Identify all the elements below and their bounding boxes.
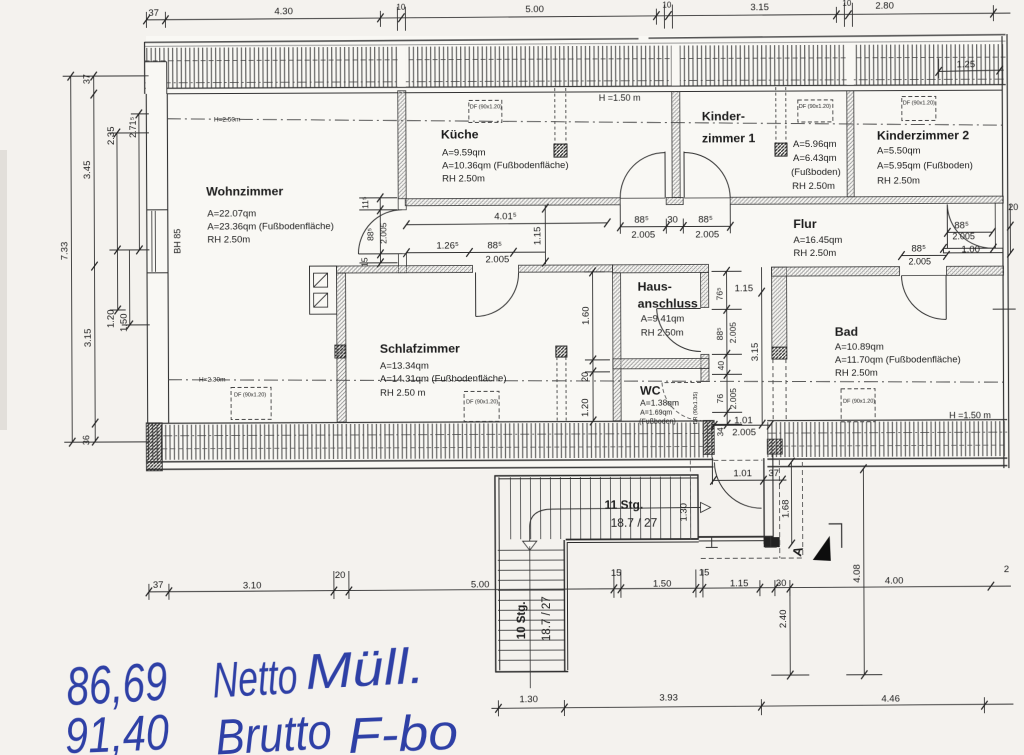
svg-text:DF (90x1.20): DF (90x1.20)	[903, 100, 935, 106]
svg-text:(Fußboden): (Fußboden)	[791, 167, 841, 178]
room label WC	[639, 384, 679, 426]
roof window DF Kinderzimmer 2	[902, 96, 936, 120]
room label Wohnzimmer	[206, 184, 334, 246]
door Schlafzimmer	[476, 272, 519, 316]
svg-text:1.01: 1.01	[734, 415, 753, 426]
svg-text:1.15: 1.15	[730, 578, 749, 589]
Wohnzimmer door dimension column	[359, 198, 397, 263]
svg-text:4.00: 4.00	[885, 576, 904, 587]
top band left notch	[146, 62, 167, 93]
top dimension chain	[146, 2, 1010, 32]
Schlafzimmer top wall left segment	[337, 265, 473, 273]
svg-text:A=5.96qm: A=5.96qm	[793, 139, 837, 150]
handwritten note line 1	[65, 637, 426, 717]
handwritten note line 2	[64, 703, 459, 755]
wall Wohnzimmer/Kueche	[398, 91, 406, 199]
room label Schlafzimmer	[380, 341, 507, 399]
dimension 3.15 vertical Flur corridor	[761, 267, 764, 424]
svg-text:A=9.41qm: A=9.41qm	[641, 314, 685, 325]
svg-text:11 Stg.: 11 Stg.	[605, 498, 644, 512]
dimension 1.68 vertical landing	[790, 462, 792, 544]
stair gap right pier	[767, 439, 782, 454]
exterior left wall	[146, 94, 169, 423]
landing dashed outline	[700, 460, 802, 558]
svg-text:Flur: Flur	[793, 217, 817, 231]
stair upper flight treads	[510, 476, 690, 539]
svg-text:A=9.59qm: A=9.59qm	[442, 147, 486, 158]
svg-text:1.20: 1.20	[106, 309, 117, 328]
svg-text:10 Stg.: 10 Stg.	[516, 601, 528, 639]
svg-text:88⁵: 88⁵	[698, 214, 713, 225]
door Kueche	[620, 152, 665, 199]
Hausanschluss right wall upper	[701, 272, 709, 307]
vertical dim 2.40 below	[771, 589, 809, 675]
svg-text:A=5.50qm: A=5.50qm	[877, 145, 921, 156]
svg-text:2.005: 2.005	[378, 222, 388, 244]
svg-text:H=2.50m: H=2.50m	[214, 116, 241, 123]
Hausanschluss/WC divider wall	[613, 358, 709, 368]
svg-text:RH 2.50m: RH 2.50m	[792, 181, 835, 192]
svg-text:18.7 / 27: 18.7 / 27	[611, 516, 658, 530]
svg-text:2.71⁵: 2.71⁵	[128, 116, 138, 138]
svg-text:88⁵: 88⁵	[365, 228, 375, 241]
electro panel Wohnzimmer	[310, 266, 337, 314]
roof window DF Kinderzimmer 1	[798, 100, 833, 122]
bottom roof band left part	[146, 420, 1007, 470]
wall 20cm piece right end of Flur	[995, 203, 1003, 248]
svg-text:Wohnzimmer: Wohnzimmer	[206, 184, 283, 198]
floor joint symbol right	[765, 536, 777, 547]
bottom dimension chain	[149, 568, 1011, 600]
svg-text:3.15: 3.15	[83, 329, 94, 348]
floor joint symbol left	[706, 536, 718, 547]
door Hausanschluss	[657, 308, 701, 351]
svg-text:20: 20	[335, 570, 346, 581]
svg-text:Brutto: Brutto	[214, 703, 333, 755]
svg-text:4.01⁵: 4.01⁵	[494, 211, 517, 222]
Flur top wall segment 2	[666, 198, 683, 205]
svg-text:RH 2.50m: RH 2.50m	[641, 328, 684, 339]
svg-text:15: 15	[699, 567, 710, 578]
svg-text:Haus-: Haus-	[638, 280, 672, 294]
svg-text:40: 40	[716, 361, 726, 371]
dimension stair door 1.01/37	[713, 479, 786, 481]
svg-text:10: 10	[662, 1, 671, 10]
svg-text:20: 20	[1008, 202, 1018, 212]
svg-text:Kinderzimmer 2: Kinderzimmer 2	[877, 128, 969, 142]
svg-text:DR (90x1.35): DR (90x1.35)	[693, 392, 699, 425]
svg-text:4.08: 4.08	[852, 564, 863, 583]
door Wohnzimmer	[358, 210, 402, 254]
Hausanschluss right wall lower	[701, 354, 709, 368]
svg-text:3.10: 3.10	[243, 580, 262, 591]
chimney Schlafzimmer	[556, 346, 567, 421]
svg-text:2.005: 2.005	[631, 230, 655, 241]
svg-text:1.50: 1.50	[653, 579, 672, 590]
svg-text:4.46: 4.46	[881, 694, 900, 705]
dimension Flur end door	[943, 232, 993, 248]
wall Kueche/Kinderzimmer1	[672, 92, 680, 198]
door WC dashed	[662, 382, 701, 420]
svg-text:DF (90x1.20): DF (90x1.20)	[466, 399, 498, 405]
svg-text:18.7 / 27: 18.7 / 27	[541, 596, 553, 641]
svg-text:H=2.30m: H=2.30m	[199, 377, 226, 384]
left dimension chain 3.45/3.15	[94, 76, 96, 441]
svg-text:Schlafzimmer: Schlafzimmer	[380, 342, 460, 356]
svg-text:RH 2.50m: RH 2.50m	[877, 175, 920, 186]
svg-text:37: 37	[153, 580, 164, 591]
svg-text:30: 30	[667, 215, 678, 226]
svg-text:76: 76	[715, 394, 725, 404]
svg-text:Kinder-: Kinder-	[702, 109, 745, 123]
Hausanschluss left wall	[613, 273, 622, 421]
door Flur end top right	[947, 204, 992, 248]
svg-text:88⁵: 88⁵	[954, 220, 969, 231]
svg-text:RH 2.50 m: RH 2.50 m	[380, 388, 426, 399]
bottom band left pier	[146, 423, 162, 471]
roof window DF Schlafzimmer	[464, 391, 499, 421]
roof window DF Kueche	[469, 100, 502, 122]
svg-text:F-bo: F-bo	[347, 704, 459, 755]
door stair entry	[712, 457, 762, 508]
svg-text:1.68: 1.68	[781, 500, 792, 519]
svg-text:DF (90x1.20): DF (90x1.20)	[799, 104, 831, 110]
svg-text:5.00: 5.00	[471, 579, 490, 590]
Schlafzimmer top wall right segment	[518, 265, 612, 272]
svg-text:H =1.50 m: H =1.50 m	[599, 93, 641, 103]
WC right wall piece	[701, 368, 709, 381]
black pier on Bad left wall	[772, 347, 787, 359]
svg-text:1.30: 1.30	[519, 694, 538, 705]
svg-text:20: 20	[580, 372, 590, 382]
svg-text:2.40: 2.40	[778, 610, 789, 629]
svg-text:RH 2.50m: RH 2.50m	[793, 248, 836, 259]
svg-text:A=10.89qm: A=10.89qm	[835, 342, 884, 353]
top band inner dim 1.25	[939, 58, 1004, 78]
svg-text:2.005: 2.005	[952, 231, 975, 241]
svg-text:11⁵: 11⁵	[360, 197, 370, 209]
svg-text:2: 2	[1004, 564, 1009, 575]
room label Kinderzimmer 2	[877, 128, 973, 186]
svg-text:1.60: 1.60	[581, 306, 592, 325]
svg-text:3.93: 3.93	[659, 693, 678, 704]
svg-text:10: 10	[396, 3, 405, 12]
svg-text:A=6.43qm: A=6.43qm	[793, 153, 837, 164]
svg-text:88⁵: 88⁵	[715, 327, 725, 340]
svg-text:37: 37	[82, 74, 92, 84]
svg-text:DF (90x1.20): DF (90x1.20)	[843, 399, 875, 405]
landing black corner	[764, 537, 780, 547]
svg-text:1.15: 1.15	[532, 227, 543, 246]
svg-text:15: 15	[359, 257, 369, 267]
svg-text:A=23.36qm (Fußbodenfläche): A=23.36qm (Fußbodenfläche)	[207, 221, 334, 233]
left dimension chain 2.71	[131, 114, 150, 250]
svg-text:1.30: 1.30	[679, 503, 690, 522]
chimney Kueche	[554, 88, 567, 157]
svg-text:A=11.70qm (Fußbodenfläche): A=11.70qm (Fußbodenfläche)	[835, 354, 961, 366]
top band wall gaps	[398, 46, 406, 87]
room label Kueche	[441, 127, 569, 185]
Bad top wall left segment	[772, 267, 900, 277]
svg-text:2.005: 2.005	[728, 322, 738, 344]
svg-text:1.20: 1.20	[580, 398, 591, 417]
chimney Kinderzimmer 1	[775, 87, 787, 156]
svg-text:WC: WC	[640, 384, 661, 398]
stair lower flight center line	[529, 546, 532, 688]
svg-text:Küche: Küche	[441, 127, 479, 141]
room label Flur	[793, 217, 842, 259]
stair gap left pier	[703, 420, 714, 454]
dimension 1.30 dashed stair	[689, 460, 691, 539]
svg-text:88⁵: 88⁵	[634, 215, 649, 226]
Flur end wall lines	[943, 247, 1003, 249]
svg-text:91,40: 91,40	[64, 704, 170, 755]
wall jamb above Wohnzimmer door	[398, 199, 406, 210]
Bad left wall	[772, 267, 787, 347]
svg-text:A=13.34qm: A=13.34qm	[380, 361, 429, 372]
svg-text:Bad: Bad	[835, 325, 858, 339]
svg-text:1.01: 1.01	[733, 468, 752, 479]
svg-text:3.15: 3.15	[750, 2, 769, 13]
room label Hausanschluss	[638, 279, 699, 338]
svg-text:RH 2.50m: RH 2.50m	[207, 234, 250, 245]
stair walking line upper	[523, 502, 711, 550]
stair lower flight treads	[498, 550, 565, 660]
dimension 1.15 vertical near Schlafzimmer door	[544, 205, 546, 264]
svg-text:2.005: 2.005	[695, 229, 719, 240]
wall Wohnzimmer/Schlafzimmer	[337, 273, 347, 422]
left dimension chain 2.35/1.20/1.50	[109, 133, 150, 325]
Hausanschluss dimension column	[712, 271, 743, 424]
svg-text:34: 34	[716, 427, 725, 436]
window glazing left wall	[152, 211, 156, 272]
door Bad	[902, 275, 947, 319]
lowest dimension chain	[491, 697, 1013, 716]
svg-text:A=1.38qm: A=1.38qm	[640, 398, 679, 408]
Hausanschluss top wall	[612, 264, 708, 272]
Bad left wall dashed continuation	[773, 359, 786, 420]
svg-text:76⁵: 76⁵	[715, 287, 725, 300]
svg-text:2.005: 2.005	[732, 427, 756, 438]
Flur top wall segment 1	[405, 198, 620, 206]
svg-text:5.00: 5.00	[525, 4, 544, 15]
svg-text:DF (90x1.20): DF (90x1.20)	[470, 104, 502, 110]
svg-text:10: 10	[842, 0, 851, 8]
room label Kinderzimmer 1	[702, 109, 841, 193]
svg-text:30: 30	[776, 578, 787, 589]
svg-text:A=16.45qm: A=16.45qm	[793, 235, 842, 246]
dimension 4.01 Flur opening	[406, 223, 607, 225]
stair right landing walls	[698, 454, 779, 544]
room label Bad	[835, 324, 961, 379]
svg-text:36: 36	[81, 435, 91, 445]
svg-text:A=14.31qm (Fußbodenfläche): A=14.31qm (Fußbodenfläche)	[380, 373, 507, 385]
left dimension chain 7.33	[63, 76, 151, 442]
svg-text:H =1.50 m: H =1.50 m	[949, 410, 991, 420]
svg-text:anschluss: anschluss	[638, 296, 698, 310]
svg-text:2.80: 2.80	[875, 1, 894, 12]
svg-text:BH 85: BH 85	[172, 229, 182, 254]
svg-text:1.15: 1.15	[735, 283, 754, 294]
svg-text:3.15: 3.15	[750, 343, 761, 362]
wall jamb below Wohnzimmer door	[398, 254, 406, 273]
Flur top wall segment 3	[730, 196, 1003, 204]
svg-text:RH 2.50m: RH 2.50m	[835, 368, 878, 379]
svg-text:A=10.36qm (Fußbodenfläche): A=10.36qm (Fußbodenfläche)	[442, 160, 569, 172]
svg-text:7.33: 7.33	[59, 242, 70, 261]
svg-text:RH 2.50m: RH 2.50m	[442, 173, 485, 184]
height line H upper	[167, 115, 1002, 129]
dimension column 1.60/20/1.20 Schlafzimmer right	[585, 272, 611, 421]
svg-text:Netto: Netto	[211, 648, 299, 709]
svg-text:zimmer 1: zimmer 1	[702, 131, 756, 145]
rooms top edge line	[167, 90, 1002, 94]
wall Kinderzimmer1/Kinderzimmer2	[847, 91, 854, 197]
Bad top wall right segment	[947, 266, 1004, 275]
svg-text:88⁵: 88⁵	[911, 243, 926, 254]
svg-text:2.005: 2.005	[485, 254, 509, 265]
svg-text:DF (90x1.20): DF (90x1.20)	[234, 392, 266, 398]
dimension 1.26/88 lower	[406, 251, 545, 254]
svg-text:2.35: 2.35	[106, 126, 117, 145]
svg-text:2.005: 2.005	[908, 256, 931, 266]
svg-text:37: 37	[148, 8, 159, 19]
svg-text:1.00: 1.00	[961, 244, 980, 255]
svg-text:88⁵: 88⁵	[487, 240, 502, 251]
section marker A	[789, 524, 842, 561]
svg-text:A=22.07qm: A=22.07qm	[207, 208, 256, 219]
svg-text:4.30: 4.30	[274, 6, 293, 17]
svg-text:15: 15	[611, 568, 622, 579]
svg-text:1.50: 1.50	[119, 313, 130, 332]
svg-text:1.25: 1.25	[957, 59, 976, 70]
roof window DF Bad	[841, 389, 875, 422]
svg-text:Müll.: Müll.	[304, 638, 426, 701]
dimension Bad door	[901, 254, 946, 256]
svg-text:A=5.95qm (Fußboden): A=5.95qm (Fußboden)	[877, 160, 973, 171]
svg-text:37: 37	[768, 468, 779, 479]
top roof band	[145, 35, 1006, 94]
black pier on Wohnzimmer/Schlafzimmer wall	[335, 345, 346, 358]
exterior right wall	[1002, 34, 1009, 468]
door Kinderzimmer 1	[684, 151, 730, 198]
left paper smudge	[0, 150, 7, 430]
dimension doors Kueche / Kinderzimmer1	[620, 204, 730, 233]
svg-text:(Fußboden): (Fußboden)	[639, 419, 676, 426]
roof window DF Wohnzimmer	[231, 387, 271, 419]
svg-text:2.005: 2.005	[728, 388, 738, 410]
stair outline walls	[494, 474, 699, 672]
vertical dim 4.08	[845, 469, 882, 675]
svg-text:3.45: 3.45	[82, 161, 93, 180]
svg-text:A=1.69qm: A=1.69qm	[640, 410, 672, 417]
svg-text:1.26⁵: 1.26⁵	[436, 241, 459, 252]
drawing interior background	[146, 36, 1008, 470]
height line H lower	[168, 376, 1003, 386]
